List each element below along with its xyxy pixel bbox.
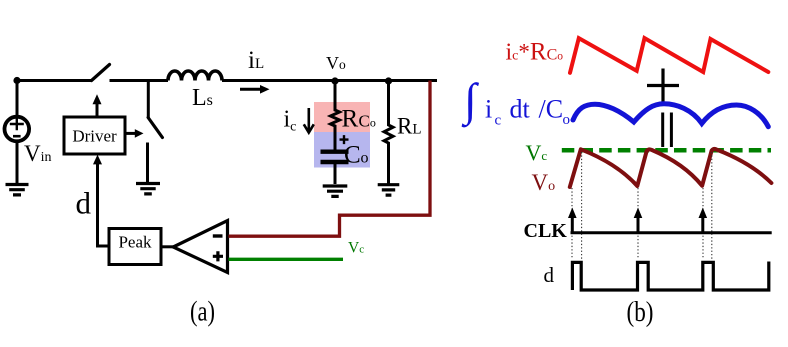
ground (Co) bbox=[323, 186, 348, 196]
label + (Co polarity) bbox=[340, 135, 349, 144]
svg-text:/C: /C bbox=[539, 95, 564, 124]
wire peak to comparator bbox=[161, 245, 174, 248]
switch S1 blade bbox=[92, 65, 110, 81]
op-amp comparator bbox=[173, 221, 227, 273]
dotted guide 2 (peak) bbox=[581, 152, 583, 259]
dotted guide 3 (valley) bbox=[637, 188, 639, 259]
svg-text:C: C bbox=[344, 142, 361, 169]
threshold Vc dashed (green) bbox=[562, 148, 771, 153]
inductor Ls bbox=[168, 71, 222, 81]
peak box bbox=[109, 229, 161, 265]
wire vc (green) bbox=[229, 258, 344, 261]
minus input bbox=[213, 234, 223, 237]
arrow driver to S1 bbox=[93, 94, 102, 117]
svg-text:o: o bbox=[361, 150, 369, 167]
dotted guide 1 (valley) bbox=[571, 188, 573, 259]
node vo bbox=[331, 77, 338, 84]
ground (RL) bbox=[378, 185, 400, 195]
resistor RL bbox=[384, 81, 393, 184]
svg-text:d: d bbox=[544, 263, 555, 287]
switch S2 bbox=[148, 81, 163, 183]
wire d (peak to driver) bbox=[98, 163, 110, 247]
feedback wire vo (dark red) bbox=[229, 81, 431, 237]
resistor RCo bbox=[331, 81, 340, 150]
arrow ic down bbox=[304, 108, 314, 133]
wire top rail bbox=[17, 79, 437, 82]
plus input bbox=[213, 251, 223, 261]
svg-text:o: o bbox=[563, 112, 571, 128]
ground (S2) bbox=[136, 184, 160, 194]
waveform Vo (dark red) bbox=[570, 149, 772, 187]
dotted guide 5 (peak) bbox=[711, 152, 713, 259]
svg-text:Driver: Driver bbox=[72, 127, 117, 146]
capacitor Co bbox=[321, 152, 349, 162]
CLK arrow 1 bbox=[568, 208, 577, 233]
arrow iL bbox=[240, 85, 270, 94]
node input bbox=[13, 77, 20, 84]
svg-text:c: c bbox=[495, 113, 502, 129]
arrow driver to S2 bbox=[125, 129, 144, 138]
svg-text:d: d bbox=[76, 186, 92, 221]
svg-text:Peak: Peak bbox=[118, 233, 152, 252]
CLK arrow 2 bbox=[634, 208, 643, 233]
plus operator bbox=[647, 69, 679, 103]
svg-text:(b): (b) bbox=[627, 296, 654, 328]
arrow d into driver bbox=[93, 155, 102, 165]
highlight Co (blue) bbox=[314, 132, 370, 168]
waveform d bbox=[572, 262, 768, 291]
svg-text:CLK: CLK bbox=[524, 220, 568, 242]
waveform ic*RCo (red) bbox=[570, 38, 768, 73]
source Vin bbox=[4, 81, 29, 184]
svg-text:(a): (a) bbox=[190, 295, 215, 327]
svg-text:dt: dt bbox=[510, 95, 531, 124]
svg-text:i: i bbox=[485, 95, 492, 124]
svg-text:R: R bbox=[342, 105, 359, 132]
highlight RCo (pink) bbox=[314, 102, 370, 132]
waveform integral (blue) bbox=[573, 104, 768, 127]
svg-text:∫: ∫ bbox=[461, 74, 479, 128]
node RL tap bbox=[385, 77, 392, 84]
CLK arrow 3 bbox=[699, 208, 708, 233]
driver box bbox=[64, 117, 125, 154]
dotted guide 4 (valley) bbox=[702, 188, 704, 259]
CLK axis bbox=[571, 231, 772, 234]
ground (Vin) bbox=[6, 185, 29, 195]
parallel operator bbox=[663, 113, 672, 148]
